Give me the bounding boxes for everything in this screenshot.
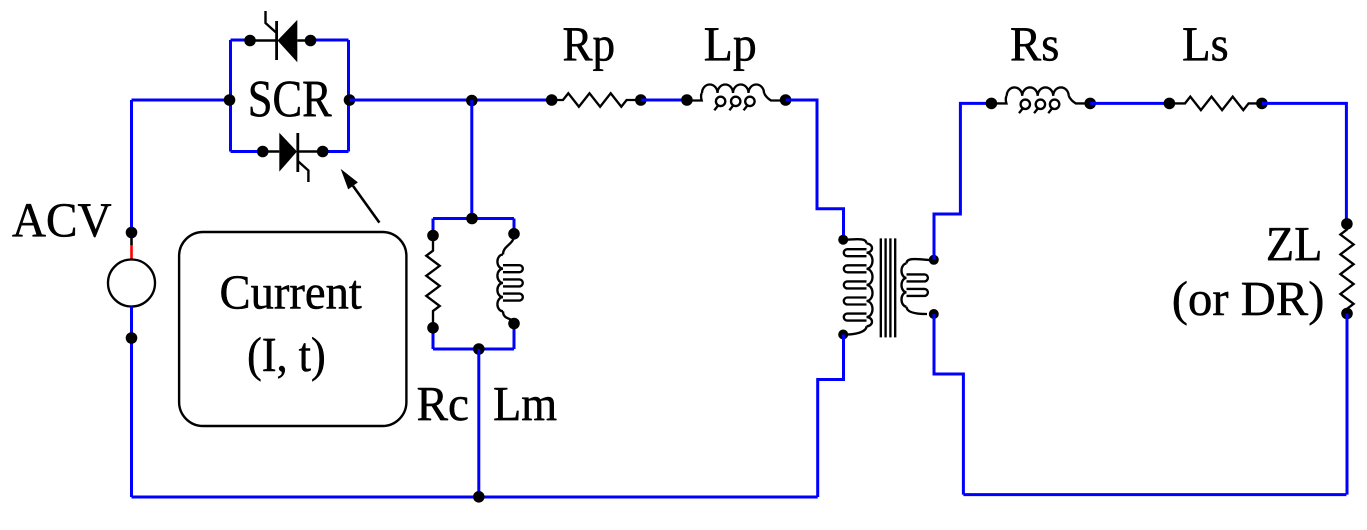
- annotation arrow shaft: [353, 186, 379, 223]
- thyristor bottom (SCR2) triangle: [279, 133, 297, 172]
- node: Lp right dot: [780, 94, 792, 106]
- label ACV: [12, 204, 111, 237]
- node: Ls left dot: [1164, 98, 1176, 110]
- node: SCR2 left dot: [257, 146, 269, 158]
- wire: primary bottom to bus: [818, 335, 844, 498]
- node: secondary top dot: [929, 255, 939, 265]
- wire: secondary bottom to bus: [934, 314, 963, 495]
- wire: bottom bus (right loop): [963, 493, 1346, 496]
- label Rs: [1011, 28, 1057, 61]
- node: SCR box mid-right dot: [344, 94, 356, 106]
- thyristor bottom (SCR2) leads: [263, 150, 323, 152]
- node: SCR2 right dot: [317, 146, 329, 158]
- label ZL: [1268, 228, 1320, 260]
- node: SCR1 right dot: [305, 35, 317, 47]
- label Lp: [705, 28, 755, 71]
- annotation arrow head: [341, 169, 358, 190]
- label SCR: [251, 81, 332, 116]
- node: ACV top dot: [126, 227, 138, 239]
- node: Rc bottom dot: [427, 322, 439, 334]
- node: Ls right dot: [1256, 98, 1268, 110]
- node: Lm bottom dot: [508, 318, 520, 330]
- node: SCR1 left dot: [244, 35, 256, 47]
- node: ACV bottom dot: [126, 332, 138, 344]
- inductor Lm (vertical coil): [497, 234, 522, 322]
- wire: bottom bus (left loop): [132, 496, 818, 499]
- SCR box (blue outline): [231, 40, 349, 152]
- parallel box Rc/Lm (blue outline): [433, 219, 514, 350]
- ACV source circle: [108, 260, 155, 307]
- node: primary bottom dot: [838, 330, 848, 340]
- label (I, t): [249, 337, 324, 381]
- wire: SCR right to Rp (through junction): [350, 99, 552, 102]
- node: parallel box top dot: [466, 213, 478, 225]
- Current (I,t) rounded box: [179, 232, 406, 426]
- node: Rs left dot: [986, 98, 998, 110]
- wire: left vertical down to bottom bus: [130, 336, 133, 497]
- node: Rp right dot: [635, 94, 647, 106]
- thyristor top (SCR1) cathode bar: [275, 21, 278, 60]
- thyristor bottom (SCR2) cathode bar: [296, 133, 299, 172]
- wire: blue below ACV source to bottom dot: [130, 307, 133, 341]
- wire: black stub below ACV top dot: [130, 236, 133, 245]
- node: SCR box mid-left dot: [224, 94, 236, 106]
- label Ls: [1183, 28, 1227, 61]
- node: junction above Rc/Lm: [466, 95, 478, 107]
- wire: red segment above ACV source: [130, 245, 133, 259]
- node: primary top dot: [838, 235, 848, 245]
- label Rc: [418, 388, 468, 421]
- wire: junction down to parallel box: [470, 100, 473, 219]
- resistor ZL (vertical zigzag): [1340, 224, 1353, 314]
- node: Rs right dot: [1084, 98, 1096, 110]
- thyristor bottom (SCR2) gate: [298, 161, 309, 182]
- transformer secondary coil: [902, 259, 934, 314]
- wire: Lp to transformer primary top: [786, 100, 844, 236]
- node: Rp left dot: [546, 94, 558, 106]
- wire: between Rs and Ls: [1090, 102, 1169, 105]
- wire: left vertical down to ACV top dot: [130, 100, 133, 230]
- node: Lp left dot: [681, 94, 693, 106]
- wire: between Rp and Lp: [641, 99, 687, 102]
- label Lm: [494, 388, 556, 420]
- resistor Ls (horizontal zigzag): [1169, 97, 1262, 110]
- thyristor top (SCR1) triangle: [278, 20, 298, 62]
- node: secondary bottom dot: [929, 309, 939, 319]
- wire: ZL bottom to bus: [1346, 314, 1349, 495]
- transformer core lines: [881, 238, 895, 337]
- node: Lm top dot: [508, 228, 520, 240]
- node: Rc top dot: [427, 230, 439, 242]
- inductor Rs (horizontal coil): [991, 87, 1090, 113]
- wire: secondary top to Rs: [934, 103, 991, 259]
- node: parallel box bottom dot: [473, 343, 485, 355]
- wire: Ls to ZL top: [1262, 103, 1347, 224]
- thyristor top (SCR1) leads: [250, 39, 311, 41]
- transformer primary coil: [843, 239, 872, 334]
- node: ZL bottom dot: [1341, 308, 1353, 320]
- thyristor top (SCR1) gate: [266, 11, 277, 33]
- resistor Rp: [552, 93, 641, 106]
- wire: left top horizontal from source corner to SCR box: [132, 99, 230, 102]
- node: bottom bus junction dot: [473, 491, 485, 503]
- wire: parallel box bottom to bus: [477, 349, 480, 497]
- inductor Lp (horizontal coil): [687, 85, 786, 111]
- resistor Rc (vertical zigzag): [426, 236, 439, 328]
- label (or DR): [1174, 281, 1322, 325]
- label Current: [221, 276, 361, 309]
- node: ZL top dot: [1341, 218, 1353, 230]
- label Rp: [564, 28, 614, 71]
